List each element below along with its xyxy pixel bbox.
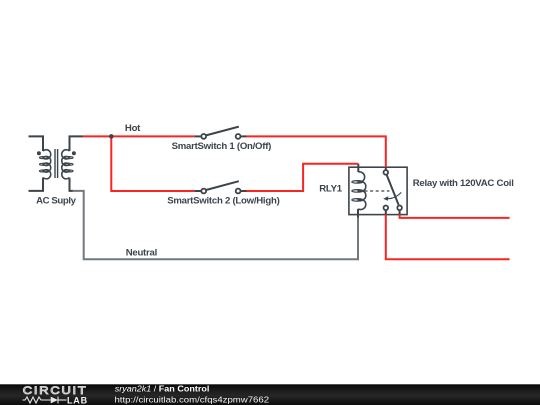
svg-text:LAB: LAB [67, 396, 88, 405]
svg-text:RLY1: RLY1 [319, 184, 343, 195]
svg-text:Hot: Hot [125, 123, 141, 134]
svg-text:Relay with 120VAC Coil: Relay with 120VAC Coil [413, 178, 514, 189]
svg-text:Neutral: Neutral [126, 248, 157, 259]
svg-text:SmartSwitch 1 (On/Off): SmartSwitch 1 (On/Off) [172, 141, 272, 152]
svg-text:sryan2k1 / Fan Control: sryan2k1 / Fan Control [115, 384, 210, 394]
svg-text:SmartSwitch 2 (Low/High): SmartSwitch 2 (Low/High) [167, 195, 279, 206]
svg-text:AC Suply: AC Suply [36, 195, 77, 206]
svg-text:http://circuitlab.com/cfqs4zpm: http://circuitlab.com/cfqs4zpmw7662 [114, 395, 269, 404]
